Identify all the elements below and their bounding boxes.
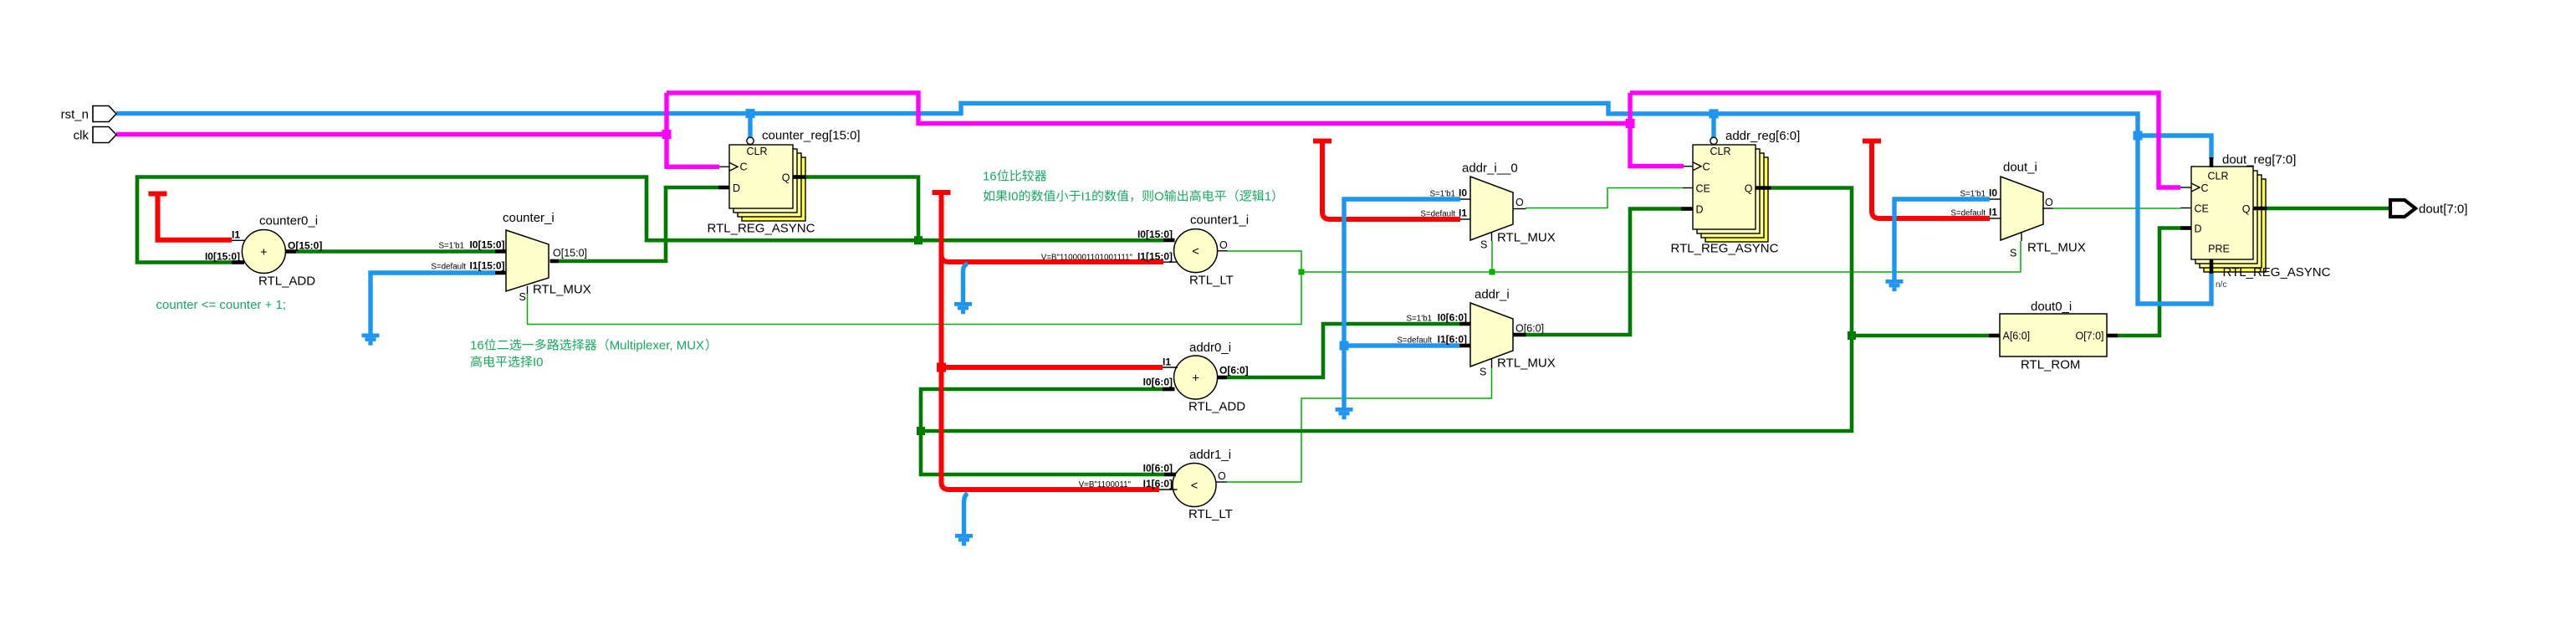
svg-text:RTL_ROM: RTL_ROM bbox=[2021, 358, 2080, 372]
svg-text:S: S bbox=[2010, 248, 2016, 259]
svg-text:S=default: S=default bbox=[1420, 210, 1455, 219]
svg-text:CLR: CLR bbox=[2207, 171, 2228, 182]
svg-text:D: D bbox=[1696, 204, 1704, 216]
svg-text:V=B"1100011": V=B"1100011" bbox=[1079, 480, 1132, 490]
svg-text:CLR: CLR bbox=[1710, 146, 1730, 157]
svg-text:n/c: n/c bbox=[2216, 280, 2226, 290]
svg-text:C: C bbox=[1703, 162, 1710, 173]
svg-text:addr1_i: addr1_i bbox=[1189, 448, 1231, 462]
svg-text:I0[6:0]: I0[6:0] bbox=[1438, 312, 1467, 324]
svg-text:RTL_REG_ASYNC: RTL_REG_ASYNC bbox=[1671, 242, 1779, 256]
svg-text:O[7:0]: O[7:0] bbox=[2075, 331, 2103, 342]
svg-text:addr_reg[6:0]: addr_reg[6:0] bbox=[1725, 129, 1800, 143]
svg-text:O[15:0]: O[15:0] bbox=[288, 240, 322, 252]
svg-text:counter0_i: counter0_i bbox=[259, 214, 318, 228]
svg-text:S=default: S=default bbox=[431, 263, 466, 272]
svg-text:I1: I1 bbox=[1163, 356, 1171, 368]
svg-text:S=default: S=default bbox=[1397, 336, 1432, 346]
svg-text:+: + bbox=[1192, 372, 1199, 386]
svg-text:CE: CE bbox=[2195, 203, 2209, 215]
svg-text:RTL_MUX: RTL_MUX bbox=[2027, 241, 2086, 255]
svg-text:S=1'b1: S=1'b1 bbox=[1960, 190, 1986, 199]
svg-text:S=1'b1: S=1'b1 bbox=[439, 242, 464, 251]
svg-text:PRE: PRE bbox=[2208, 244, 2230, 255]
svg-text:V=B"1100001101001111": V=B"1100001101001111" bbox=[1041, 254, 1133, 263]
svg-text:D: D bbox=[733, 182, 740, 194]
svg-text:Multiplexer, MUX: Multiplexer, MUX bbox=[610, 339, 704, 353]
svg-text:S: S bbox=[1480, 367, 1486, 378]
svg-text:O: O bbox=[1219, 239, 1228, 251]
svg-text:addr0_i: addr0_i bbox=[1189, 341, 1231, 355]
svg-text:RTL_REG_ASYNC: RTL_REG_ASYNC bbox=[708, 222, 815, 236]
svg-text:O: O bbox=[1154, 190, 1164, 204]
svg-text:CE: CE bbox=[1696, 183, 1710, 195]
svg-text:O: O bbox=[1218, 470, 1226, 482]
svg-text:C: C bbox=[740, 162, 748, 173]
svg-text:I0: I0 bbox=[533, 356, 544, 370]
svg-text:clk: clk bbox=[74, 129, 89, 143]
svg-text:dout0_i: dout0_i bbox=[2031, 300, 2072, 314]
svg-text:Q: Q bbox=[782, 172, 790, 184]
svg-text:I0: I0 bbox=[1989, 187, 1997, 199]
svg-text:CLR: CLR bbox=[746, 146, 767, 157]
svg-text:dout[7:0]: dout[7:0] bbox=[2419, 203, 2467, 217]
svg-text:I0[15:0]: I0[15:0] bbox=[469, 239, 504, 251]
svg-text:C: C bbox=[2201, 182, 2209, 194]
svg-text:Q: Q bbox=[1745, 183, 1753, 195]
svg-text:I1: I1 bbox=[1081, 190, 1092, 204]
svg-text:I0[15:0]: I0[15:0] bbox=[205, 251, 240, 263]
svg-text:O[6:0]: O[6:0] bbox=[1219, 365, 1249, 377]
svg-text:S=default: S=default bbox=[1950, 209, 1986, 218]
svg-text:I1[6:0]: I1[6:0] bbox=[1438, 334, 1467, 346]
svg-text:RTL_MUX: RTL_MUX bbox=[533, 283, 591, 297]
svg-text:I0: I0 bbox=[1008, 190, 1019, 204]
svg-text:addr_i: addr_i bbox=[1475, 288, 1510, 302]
svg-text:<: < bbox=[1191, 479, 1198, 493]
svg-text:D: D bbox=[2195, 223, 2202, 235]
svg-text:I1: I1 bbox=[1989, 207, 1997, 218]
svg-text:16: 16 bbox=[983, 170, 997, 184]
svg-text:I1: I1 bbox=[1459, 208, 1467, 219]
svg-text:I1[15:0]: I1[15:0] bbox=[469, 260, 504, 272]
svg-text:O: O bbox=[1515, 197, 1524, 208]
svg-text:S=1'b1: S=1'b1 bbox=[1430, 190, 1455, 199]
svg-text:counter_reg[15:0]: counter_reg[15:0] bbox=[762, 129, 861, 143]
svg-text:<: < bbox=[1192, 245, 1199, 259]
svg-text:O[15:0]: O[15:0] bbox=[553, 248, 587, 259]
svg-text:I0[15:0]: I0[15:0] bbox=[1137, 228, 1173, 240]
svg-text:RTL_MUX: RTL_MUX bbox=[1497, 356, 1556, 371]
svg-text:I0: I0 bbox=[1459, 187, 1467, 199]
svg-text:S: S bbox=[519, 291, 526, 303]
svg-text:16: 16 bbox=[470, 339, 484, 353]
svg-text:counter_i: counter_i bbox=[503, 211, 555, 225]
svg-text:counter <= counter + 1;: counter <= counter + 1; bbox=[156, 298, 287, 312]
svg-text:RTL_MUX: RTL_MUX bbox=[1497, 231, 1556, 245]
svg-text:dout_reg[7:0]: dout_reg[7:0] bbox=[2222, 153, 2296, 167]
svg-text:I1: I1 bbox=[232, 229, 240, 241]
svg-text:S=1'b1: S=1'b1 bbox=[1407, 315, 1432, 324]
svg-text:A[6:0]: A[6:0] bbox=[2003, 331, 2031, 342]
svg-text:I1[15:0]: I1[15:0] bbox=[1137, 251, 1173, 263]
svg-text:O[6:0]: O[6:0] bbox=[1515, 323, 1544, 335]
svg-text:S: S bbox=[1480, 239, 1487, 251]
svg-text:Q: Q bbox=[2242, 203, 2251, 215]
svg-text:I0[6:0]: I0[6:0] bbox=[1143, 463, 1173, 474]
svg-text:I0[6:0]: I0[6:0] bbox=[1143, 377, 1173, 388]
svg-text:1: 1 bbox=[1265, 190, 1271, 204]
svg-text:dout_i: dout_i bbox=[2003, 161, 2037, 175]
svg-text:RTL_LT: RTL_LT bbox=[1188, 507, 1233, 521]
svg-text:+: + bbox=[260, 246, 267, 259]
svg-text:I1[6:0]: I1[6:0] bbox=[1143, 478, 1173, 490]
svg-text:RTL_LT: RTL_LT bbox=[1189, 274, 1234, 288]
svg-text:O: O bbox=[2045, 197, 2053, 208]
svg-text:addr_i__0: addr_i__0 bbox=[1462, 162, 1518, 176]
svg-text:RTL_ADD: RTL_ADD bbox=[1188, 400, 1245, 414]
svg-text:counter1_i: counter1_i bbox=[1190, 213, 1249, 228]
svg-text:RTL_ADD: RTL_ADD bbox=[258, 274, 315, 289]
svg-text:rst_n: rst_n bbox=[61, 108, 89, 122]
svg-text:RTL_REG_ASYNC: RTL_REG_ASYNC bbox=[2223, 265, 2331, 279]
